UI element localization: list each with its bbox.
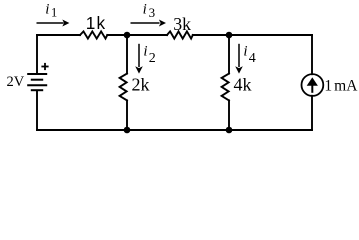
svg-text:1mA: 1mA [324,77,358,94]
node A top junction dot [124,32,131,39]
wire top-left segment [37,34,80,36]
svg-text:2k: 2k [132,75,150,95]
resistor R2 3k [167,31,193,38]
wire left side lower (from battery) [36,91,38,130]
resistor R3 2k [120,74,127,101]
voltage source plus sign [41,63,48,70]
svg-text:2: 2 [149,51,156,66]
svg-text:2V: 2V [7,74,25,90]
wire branch node A upper [126,35,128,74]
svg-text:i: i [45,2,49,18]
wire right side lower (from current source) [311,96,313,130]
current source I1 circle [302,74,324,96]
wire between 1k and node A [107,34,167,36]
wire branch node B upper [228,35,230,74]
current arrow i3 [131,20,167,27]
svg-text:3k: 3k [173,14,191,34]
svg-text:4k: 4k [234,75,252,95]
voltage source V1 battery plates [27,74,47,90]
svg-text:1: 1 [51,6,57,20]
svg-text:4: 4 [249,51,256,66]
node A bottom junction dot [124,127,131,134]
svg-text:i: i [143,2,147,18]
svg-text:i: i [143,43,147,59]
node B bottom junction dot [226,127,233,134]
wire branch node B lower [228,100,230,130]
wire bottom [37,129,312,131]
resistor R4 4k [222,74,229,101]
current arrow i1 [37,20,70,27]
wire left side upper (to battery) [36,35,38,73]
svg-text:3: 3 [149,5,156,20]
wire branch node A lower [126,100,128,130]
resistor R1 1k [80,31,107,38]
svg-text:1k: 1k [86,13,107,33]
current arrow i2 [135,44,143,74]
node B top junction dot [226,32,233,39]
wire right side upper (to current source) [311,35,313,74]
current arrow i4 [235,44,243,74]
wire between 3k and node B [193,34,312,36]
svg-text:i: i [243,43,247,59]
current source arrow [307,77,318,92]
